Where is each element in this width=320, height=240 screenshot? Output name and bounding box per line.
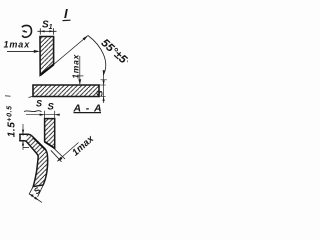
svg-text:I: I: [64, 6, 68, 21]
svg-text:1max: 1max: [4, 40, 31, 50]
svg-text:S: S: [36, 99, 42, 109]
svg-text:S: S: [48, 102, 55, 113]
svg-text:1max: 1max: [70, 53, 80, 78]
svg-text:S: S: [94, 90, 104, 96]
